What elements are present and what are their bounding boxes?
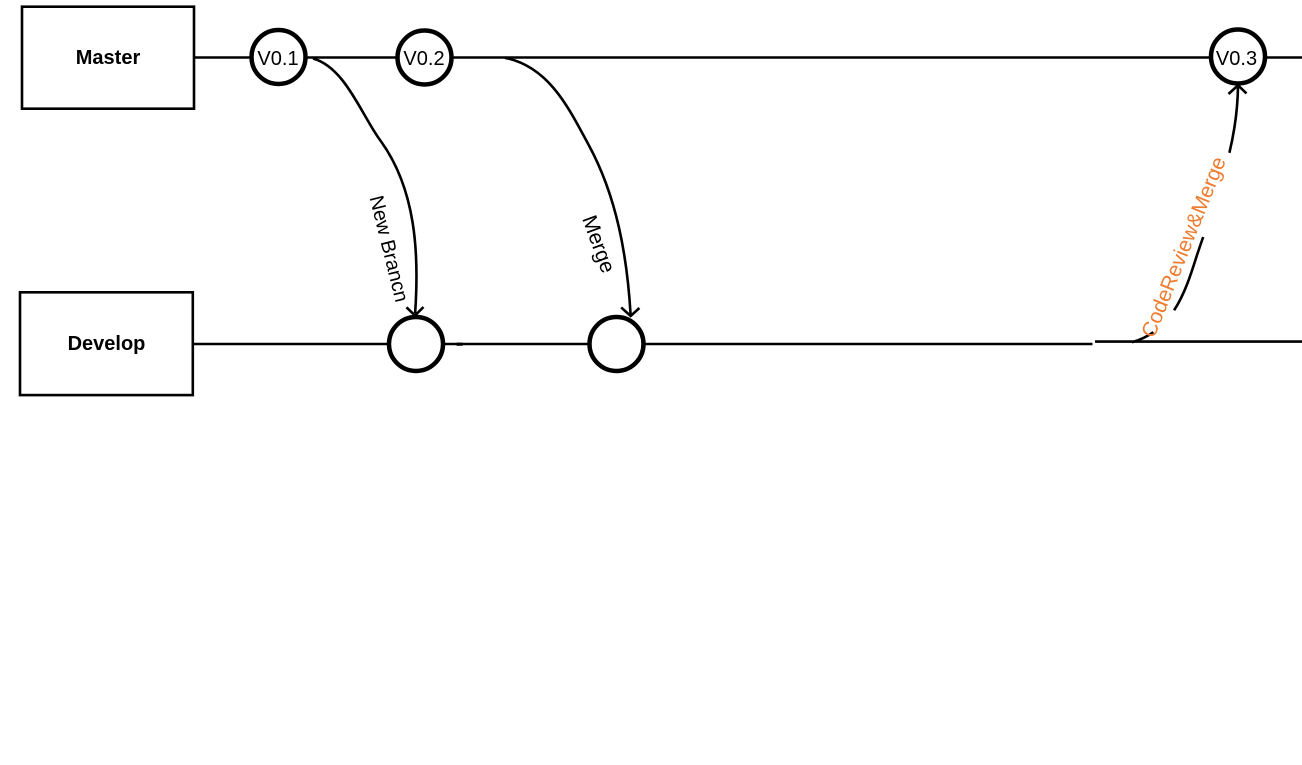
svg-text:CodeReview&Merge: CodeReview&Merge [1137, 154, 1230, 341]
develop line right segment [1095, 340, 1302, 343]
master line [195, 56, 1302, 59]
svg-text:V0.3: V0.3 [1216, 48, 1257, 70]
develop line left segment [194, 343, 1093, 346]
curve CodeReview segment 2 (mid) [1174, 237, 1203, 310]
box Master [22, 7, 194, 109]
svg-text:V0.1: V0.1 [257, 48, 298, 70]
box Develop [20, 292, 193, 395]
svg-text:Develop: Develop [68, 333, 146, 355]
svg-text:Merge: Merge [577, 212, 619, 276]
develop commit circle 1 [389, 317, 443, 371]
develop commit circle 2 [590, 317, 644, 371]
curve CodeReview segment 1 (develop line departure) [1132, 332, 1153, 342]
commit circle V0.2 [398, 31, 452, 85]
commit circle V0.3 [1211, 30, 1265, 84]
arrowhead into develop commit 2 [621, 307, 639, 316]
dash artifact on develop line [457, 343, 463, 346]
arrowhead into develop commit 1 [407, 307, 424, 316]
arrowhead into V0.3 [1229, 85, 1247, 94]
curve New Branch (V0.1 to develop commit 1) [313, 59, 417, 314]
svg-text:V0.2: V0.2 [403, 48, 444, 70]
curve Merge (V0.2 to develop commit 2) [505, 58, 631, 315]
svg-text:Master: Master [76, 47, 141, 69]
commit circle V0.1 [252, 30, 306, 84]
curve CodeReview segment 3 (stem to V0.3) [1229, 86, 1238, 153]
svg-text:New Brancn: New Brancn [365, 193, 413, 304]
